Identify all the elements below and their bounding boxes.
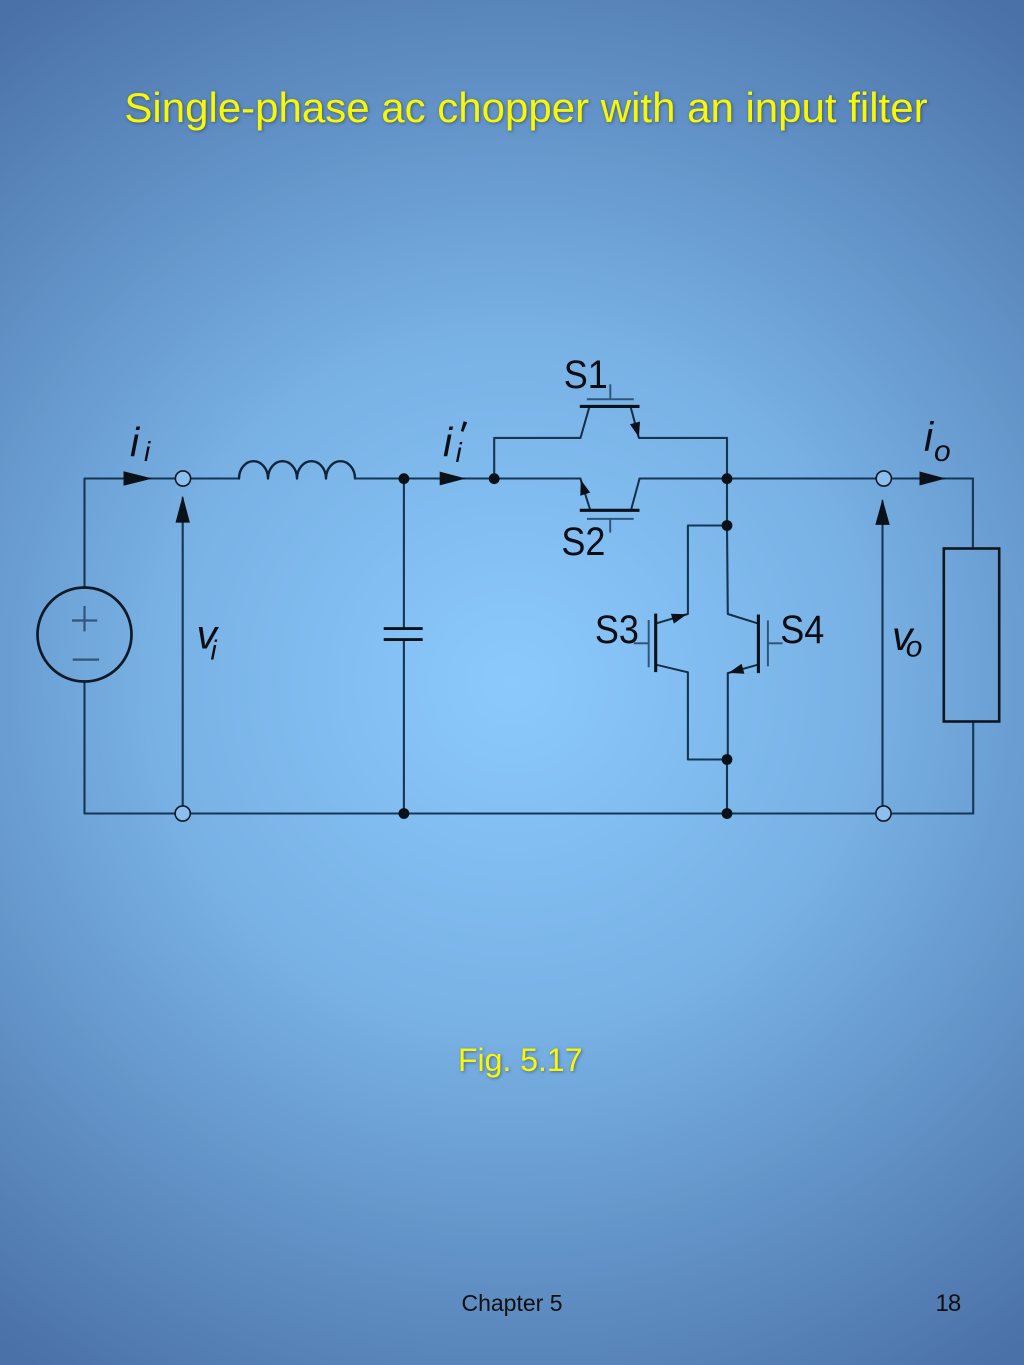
inductor L bbox=[239, 461, 355, 478]
S4 top leg bbox=[728, 614, 758, 623]
svg-text:o: o bbox=[934, 435, 951, 468]
arrow i_i' bbox=[440, 472, 466, 486]
wire lower junction to bottom rail bbox=[726, 760, 728, 814]
S2 channel bar bbox=[580, 509, 640, 512]
label i_i' bbox=[443, 419, 467, 468]
S4 arrow bbox=[729, 664, 745, 674]
S3 gate lead bbox=[634, 642, 649, 644]
svg-text:i: i bbox=[443, 419, 454, 465]
junction dot node i_i' bbox=[489, 473, 500, 484]
wire S4 feed bbox=[726, 526, 729, 615]
wire S2 to output terminal bbox=[640, 477, 973, 479]
S3 bottom leg bbox=[657, 665, 688, 673]
wire S3 feed branch bbox=[688, 526, 727, 615]
wire S1 branch left riser bbox=[494, 438, 580, 479]
load resistor R bbox=[944, 549, 999, 722]
wire load bottom lead bbox=[972, 722, 974, 814]
label i_o bbox=[924, 413, 951, 468]
terminal input bottom bbox=[175, 806, 190, 821]
svg-text:i: i bbox=[456, 437, 463, 468]
S1 left leg bbox=[581, 407, 590, 438]
switch S3 (IGBT left vertical) bbox=[634, 614, 688, 673]
svg-text:Fig. 5.17: Fig. 5.17 bbox=[458, 1042, 583, 1078]
S2 gate lead bbox=[609, 519, 611, 533]
switch S1 (IGBT top) bbox=[580, 384, 640, 438]
junction dot S3/S4 bottom bbox=[722, 754, 733, 765]
wire center column upper bbox=[726, 479, 728, 526]
wire v_i measurement line bbox=[182, 498, 184, 806]
S4 gate bar bbox=[767, 620, 769, 666]
wire bottom rail bbox=[85, 812, 974, 814]
S1 channel bar bbox=[580, 405, 640, 408]
junction dot capacitor bottom bbox=[399, 808, 410, 819]
svg-text:18: 18 bbox=[936, 1290, 961, 1317]
capacitor C plates bbox=[384, 629, 423, 640]
S3 arrow bbox=[671, 614, 687, 624]
svg-text:S2: S2 bbox=[561, 520, 605, 564]
svg-text:o: o bbox=[906, 631, 923, 664]
switch S4 (IGBT right vertical) bbox=[728, 614, 783, 674]
S2 gate bar bbox=[587, 518, 634, 520]
svg-text:i: i bbox=[211, 635, 218, 666]
S1 gate lead bbox=[609, 384, 611, 399]
wire top-left segment bbox=[85, 477, 176, 479]
S3 top leg bbox=[657, 614, 688, 623]
S4 channel bar bbox=[757, 615, 760, 674]
wire capacitor top lead bbox=[403, 479, 405, 628]
S1 right leg bbox=[631, 407, 639, 438]
S4 gate lead bbox=[768, 642, 783, 644]
junction dot bottom center bbox=[722, 808, 733, 819]
wire inductor to S2 bbox=[355, 477, 581, 479]
S1 arrow bbox=[630, 422, 640, 438]
label i_i bbox=[130, 419, 151, 467]
source minus sign bbox=[73, 658, 99, 660]
wire S3 bottom to lower junction bbox=[688, 672, 727, 759]
svg-text:i: i bbox=[130, 419, 141, 465]
S2 right leg bbox=[631, 479, 639, 510]
wire capacitor bottom lead bbox=[403, 641, 405, 814]
svg-text:Chapter 5: Chapter 5 bbox=[461, 1290, 562, 1316]
svg-text:S4: S4 bbox=[780, 609, 824, 653]
junction dot center top bbox=[722, 473, 733, 484]
wire S1 branch right riser bbox=[639, 438, 727, 479]
source plus sign bbox=[72, 606, 99, 660]
arrow v_i bbox=[176, 496, 190, 523]
junction dot S3/S4 top bbox=[722, 520, 733, 531]
S1 gate bar bbox=[587, 398, 634, 400]
S4 bottom leg bbox=[728, 665, 758, 673]
label v_o bbox=[892, 613, 922, 663]
wire S4 bottom to lower junction bbox=[727, 673, 729, 759]
arrow i_o bbox=[920, 472, 946, 486]
S3 gate bar bbox=[648, 620, 650, 667]
wire load top lead bbox=[972, 479, 974, 549]
wire terminal to inductor bbox=[191, 477, 240, 479]
junction dot input node bbox=[399, 473, 410, 484]
terminal output bottom bbox=[876, 806, 891, 821]
label v_i bbox=[197, 611, 220, 665]
svg-text:S1: S1 bbox=[564, 353, 608, 397]
wire v_o measurement line bbox=[881, 501, 883, 806]
switch S2 (IGBT bottom) bbox=[580, 479, 640, 533]
terminal output top bbox=[876, 471, 891, 486]
svg-text:S3: S3 bbox=[595, 609, 639, 653]
S2 left leg bbox=[581, 479, 591, 510]
terminal input top bbox=[175, 471, 190, 486]
arrow v_o bbox=[875, 499, 889, 525]
wire left vertical top bbox=[83, 479, 85, 588]
ac source V bbox=[38, 588, 132, 682]
arrow i_i bbox=[124, 471, 153, 485]
svg-text:i: i bbox=[144, 436, 151, 467]
S3 channel bar bbox=[654, 614, 657, 673]
S2 arrow bbox=[580, 480, 590, 496]
svg-text:Single-phase ac chopper with a: Single-phase ac chopper with an input fi… bbox=[124, 84, 927, 131]
wire left vertical bottom bbox=[83, 682, 85, 814]
